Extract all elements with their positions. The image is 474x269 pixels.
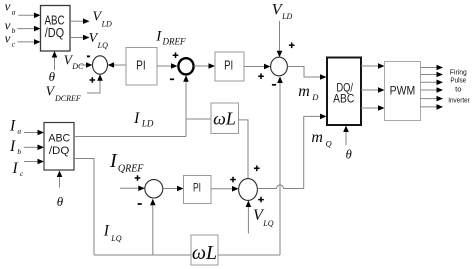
label minus SJ5 [138, 203, 142, 205]
wire I_LQ from U2 down [74, 159, 94, 256]
label I_b [9, 138, 21, 156]
label firing pulse to inverter [448, 68, 470, 105]
svg-text:ωL: ωL [213, 109, 236, 129]
wire V_LD output [70, 18, 90, 24]
wire v_b [17, 26, 40, 32]
block omegaL bottom [191, 235, 218, 265]
label v_c [5, 31, 16, 49]
summing junction SJ3 [271, 57, 288, 76]
svg-text:/DQ: /DQ [45, 25, 64, 40]
svg-text:PI: PI [136, 58, 146, 72]
label plus SJ6 left [230, 177, 236, 183]
svg-text:PWM: PWM [390, 83, 416, 97]
svg-text:ABC: ABC [333, 92, 355, 106]
svg-text:θ: θ [346, 147, 352, 161]
wire m_Q into DQ/ABC [304, 114, 327, 120]
wire SJ2 to PI2 [194, 63, 215, 69]
label plus SJ6 bottom [258, 197, 264, 203]
wire omegaL bottom input [94, 254, 191, 256]
label V_LQ output [89, 31, 109, 50]
svg-text:θ: θ [57, 194, 64, 209]
wire PWM out 4 [421, 87, 444, 93]
wire theta into U2 [57, 171, 63, 188]
wire V_LQ output [70, 35, 90, 41]
wire I_LD feedback up into SJ2 [183, 75, 189, 136]
label v_a [5, 0, 16, 16]
block PWM [385, 62, 421, 121]
wire PWM out 6 [421, 104, 444, 110]
label I_DREF [155, 29, 186, 47]
wire DQ/ABC to PWM 2 [361, 87, 385, 93]
wire V_LD down into SJ3 [277, 21, 283, 57]
wire V_LQ into SJ6 [246, 201, 252, 234]
svg-text:to: to [455, 85, 461, 94]
svg-text:PI: PI [224, 58, 233, 72]
wire SJ6 output with hop to m_Q riser [257, 116, 303, 188]
wire omegaL top output to SJ6 [239, 120, 249, 179]
label V_DCREF [46, 84, 81, 104]
wire PWM out 5 [421, 96, 444, 102]
block U1 ABC/DQ voltage transform [41, 6, 71, 52]
label I_LQ [103, 223, 122, 244]
label plus SJ5 [135, 175, 141, 181]
label plus SJ3 top [289, 43, 295, 49]
label minus SJ2 [170, 78, 174, 80]
label I_QREF [109, 150, 144, 175]
label minus SJ1 [87, 55, 90, 57]
wire I_QREF into SJ5 [120, 186, 145, 192]
wire PI1 to SJ1 [108, 62, 126, 68]
label plus SJ2 [173, 52, 179, 58]
svg-text:ωL: ωL [192, 242, 217, 264]
label minus SJ3 [272, 84, 276, 86]
wire PWM out 3 [421, 80, 444, 86]
wire omegaL riser into SJ3 bottom [277, 77, 283, 256]
wire v_c [17, 39, 40, 45]
wire DQ/ABC to PWM 1 [361, 63, 385, 69]
svg-text:/DQ: /DQ [49, 145, 70, 157]
wire theta into U1 [52, 51, 58, 70]
label I_LD [133, 110, 154, 129]
block PI1 [126, 48, 157, 86]
wire SJ3 to DQ/ABC (m_D) [288, 67, 327, 80]
wire V_DCREF into SJ1 [87, 74, 103, 93]
wire omegaL top input [186, 118, 211, 120]
wire omegaL bottom output [218, 254, 280, 256]
wire SJ5 to PI3 [163, 186, 184, 192]
label V_LQ input [253, 207, 274, 228]
label plus SJ1 [90, 77, 96, 83]
summing junction SJ5 [145, 180, 163, 198]
wire I_a [24, 130, 44, 136]
wire PI3 to SJ6 [211, 186, 239, 192]
block U2 ABC/DQ current transform [44, 123, 74, 171]
label I_a [9, 117, 21, 135]
svg-text:Inverter: Inverter [448, 96, 470, 105]
wire PI2 to SJ3 [244, 64, 271, 70]
svg-text:PI: PI [193, 182, 201, 194]
block DQ/ABC [327, 58, 361, 126]
wire PWM out 1 [421, 65, 444, 71]
label plus SJ6 top [254, 166, 260, 172]
label I_c [12, 160, 24, 178]
label theta U1 [49, 69, 56, 84]
block PI3 [184, 176, 212, 204]
wire I_c [24, 159, 44, 165]
svg-text:Pulse: Pulse [450, 76, 466, 85]
label V_LD output [93, 10, 113, 29]
label v_b [5, 17, 16, 35]
wire I_LD from U2 [74, 136, 186, 138]
svg-text:θ: θ [49, 69, 56, 84]
wire I_LQ feedback into SJ5 [150, 199, 156, 255]
block PI2 [215, 52, 244, 81]
label m_D [298, 83, 319, 102]
label V_DC [64, 52, 84, 71]
block omegaL top [211, 103, 239, 134]
summing junction SJ2 bold [178, 58, 193, 74]
label theta U2 [57, 194, 64, 209]
wire DQ/ABC to PWM 3 [361, 105, 385, 111]
wire PI1 to SJ2 [157, 63, 178, 69]
label theta DQ/ABC [346, 147, 352, 161]
svg-text:ABC: ABC [48, 132, 70, 144]
label V_LD input top [272, 1, 293, 21]
wire PWM out 2 [421, 72, 444, 78]
label plus SJ3 left [258, 73, 264, 79]
summing junction SJ1 [93, 56, 108, 74]
wire I_b [24, 145, 44, 151]
label m_Q [311, 129, 331, 149]
summing junction SJ6 [239, 179, 258, 201]
wire theta into DQ/ABC [343, 126, 349, 146]
wire V_DC into SJ1 [81, 62, 93, 68]
wire v_a [18, 13, 40, 19]
